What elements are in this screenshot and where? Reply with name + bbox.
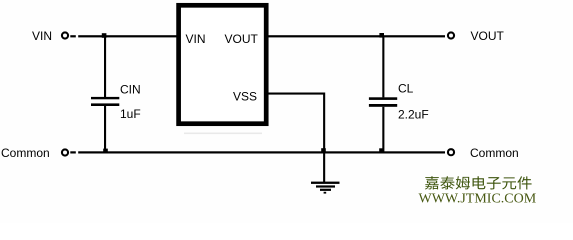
wire VIN terminal to IC pin VIN — [70, 35, 176, 38]
svg-text:VIN: VIN — [32, 29, 52, 43]
ground — [311, 182, 340, 194]
wire VSS corner down to ground — [323, 93, 325, 183]
node Common left terminal — [62, 149, 68, 155]
wire input node down to CIN — [104, 36, 106, 97]
svg-text:CL: CL — [398, 82, 414, 96]
junction output node — [379, 33, 384, 38]
junction CL at common rail — [379, 148, 383, 152]
junction CIN at common rail — [103, 149, 108, 154]
svg-text:VOUT: VOUT — [225, 32, 259, 46]
watermark Chinese text — [425, 176, 532, 189]
svg-text:2.2uF: 2.2uF — [398, 108, 429, 122]
svg-text:Common: Common — [470, 146, 519, 160]
wire CL to common rail — [382, 107, 384, 153]
svg-text:VSS: VSS — [233, 90, 257, 104]
node VIN input terminal — [62, 32, 68, 38]
junction input node — [102, 33, 107, 38]
wire IC pin VOUT to VOUT terminal — [266, 35, 445, 37]
svg-text:Common: Common — [1, 146, 50, 160]
wire (faint compression ghost under IC) — [184, 133, 262, 135]
node VOUT output terminal — [448, 32, 454, 38]
junction VSS at common rail — [321, 148, 326, 153]
svg-text:VIN: VIN — [186, 32, 206, 46]
wire common rail — [70, 151, 445, 154]
svg-text:WWW.JTMIC.COM: WWW.JTMIC.COM — [419, 191, 537, 206]
capacitor CL — [369, 97, 397, 107]
capacitor CIN — [91, 97, 119, 106]
svg-text:CIN: CIN — [120, 83, 141, 97]
node Common right terminal — [448, 149, 454, 155]
svg-text:VOUT: VOUT — [471, 29, 505, 43]
op-amp U1 regulator body — [179, 5, 267, 123]
wire IC pin VSS to corner — [266, 93, 325, 95]
wire CIN to common rail — [104, 106, 106, 153]
svg-text:1uF: 1uF — [120, 107, 141, 121]
wire output node down to CL — [382, 36, 384, 97]
